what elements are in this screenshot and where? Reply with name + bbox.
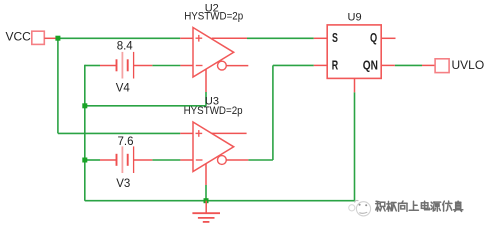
svg-text:U9: U9: [348, 12, 362, 24]
svg-text:V3: V3: [116, 178, 130, 190]
node junction1 on rail B: [82, 103, 87, 108]
svg-text:QN: QN: [363, 58, 378, 73]
wire U9 QN output to UVLO port: [395, 64, 422, 66]
svg-text:V4: V4: [116, 83, 131, 95]
svg-text:S: S: [332, 30, 338, 45]
pin U2 inverted output lead: [226, 65, 248, 67]
svg-text:Q: Q: [370, 30, 377, 45]
pin U2 minus input lead: [180, 65, 193, 67]
pin U9 QN lead: [382, 64, 395, 66]
node junction at ground: [204, 198, 209, 203]
pin U3 plus input lead: [180, 132, 193, 134]
battery V4: [100, 52, 152, 79]
svg-text:HYSTWD=2p: HYSTWD=2p: [184, 11, 243, 23]
wire U3 inverted output horizontal: [248, 159, 273, 161]
wire junction2 to V3 left terminal: [87, 159, 100, 161]
pin U9 R lead: [314, 64, 327, 66]
watermark text: [376, 201, 463, 211]
pin U2 output lead: [212, 37, 247, 39]
wire bottom ground rail: [85, 200, 355, 202]
op-amp U2 comparator: [193, 28, 234, 78]
pin U2 inverted output bubble: [218, 61, 227, 70]
svg-text:UVLO: UVLO: [452, 58, 485, 72]
port UVLO: [435, 59, 449, 73]
wire VCC junction to U2 plus input: [60, 37, 180, 39]
svg-text:VCC: VCC: [6, 30, 32, 44]
node junction at VCC: [55, 36, 60, 41]
battery V3: [100, 146, 152, 173]
node junction2 on rail B: [82, 158, 87, 163]
wire VCC port lead: [44, 37, 55, 39]
pin U3 output lead: [212, 132, 247, 134]
wire U3 inverted output riser: [272, 65, 274, 160]
wire U2 ground pin drop: [205, 92, 207, 106]
wire U3 ground pin drop: [205, 185, 207, 201]
pin U3 inverted output lead: [226, 159, 248, 161]
pin U3 ground lead: [205, 164, 207, 185]
wire riser to U9 R input: [273, 64, 314, 66]
pin U9 ground lead: [354, 78, 356, 92]
wire rail B to V4 left terminal: [85, 65, 100, 67]
svg-text:HYSTWD=2p: HYSTWD=2p: [184, 105, 243, 117]
wire left rail A vertical: [57, 38, 59, 133]
wire V4 right terminal to U2 minus input: [152, 65, 180, 67]
svg-text:7.6: 7.6: [118, 136, 134, 148]
pin U9 Q lead: [382, 37, 396, 39]
svg-text:8.4: 8.4: [117, 41, 134, 53]
ground: [192, 201, 220, 222]
op-amp U3 comparator: [193, 122, 234, 172]
wire U2 output to U9 S input: [247, 37, 314, 39]
pin U3 inverted output bubble: [218, 156, 227, 165]
wire rail A to U3 plus input: [58, 132, 180, 134]
wire UVLO port lead: [422, 64, 435, 66]
svg-text:R: R: [332, 58, 338, 73]
wire V3 right terminal to U3 minus input: [152, 159, 180, 161]
pin U3 minus input lead: [180, 159, 193, 161]
port VCC: [32, 31, 45, 44]
pin U9 S lead: [314, 37, 327, 39]
pin U2 ground lead: [205, 69, 207, 92]
wire left rail B vertical: [84, 65, 86, 201]
pin U2 plus input lead: [180, 37, 193, 39]
flip-flop U9 body: [327, 25, 381, 79]
watermark logo: [349, 200, 371, 215]
wire junction1 to U2 ground pin: [85, 105, 206, 107]
wire U9 ground pin vertical: [354, 92, 356, 200]
